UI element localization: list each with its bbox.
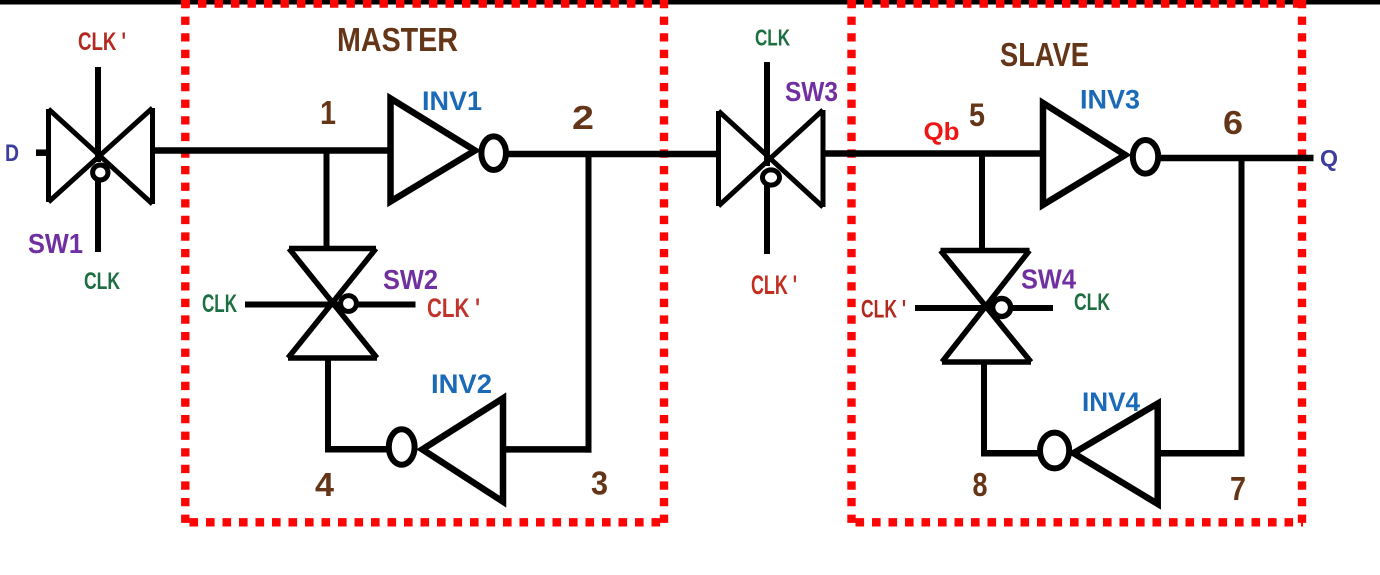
- wire node 5 to SW4: [979, 154, 985, 251]
- transmission gate SW4: [941, 251, 1032, 363]
- svg-text:CLK ': CLK ': [751, 270, 797, 300]
- svg-text:MASTER: MASTER: [337, 21, 458, 58]
- svg-text:INV1: INV1: [422, 86, 482, 116]
- svg-text:CLK ': CLK ': [861, 296, 906, 324]
- wire SW1 to INV1 (node 1): [153, 147, 391, 154]
- svg-text:CLK: CLK: [202, 290, 237, 318]
- wire node 1 to SW2: [324, 151, 330, 249]
- wire CLK' to SW1 (top): [95, 67, 101, 162]
- svg-text:CLK: CLK: [755, 25, 790, 51]
- svg-text:CLK: CLK: [84, 268, 120, 295]
- wire CLK to SW3 (top): [764, 62, 770, 166]
- inverter INV4: [1074, 404, 1158, 504]
- MASTER dashed box: [182, 0, 669, 523]
- svg-text:INV4: INV4: [1082, 387, 1140, 417]
- SW4 control line (CLK' / CLK): [915, 305, 1053, 311]
- svg-text:6: 6: [1223, 104, 1243, 141]
- INV4 output bubble: [1040, 433, 1069, 469]
- wire node 2 to node 3: [586, 151, 592, 453]
- svg-text:SW4: SW4: [1021, 263, 1076, 294]
- SW2 control line (CLK / CLK'): [245, 302, 416, 308]
- svg-text:SLAVE: SLAVE: [1000, 36, 1089, 73]
- wire node 8 to INV4: [981, 450, 1040, 457]
- svg-text:1: 1: [320, 94, 336, 131]
- INV3 output bubble: [1133, 140, 1158, 174]
- svg-text:3: 3: [591, 465, 608, 502]
- svg-text:SW2: SW2: [383, 264, 438, 295]
- SW2 enable bubble: [341, 296, 357, 312]
- svg-text:CLK ': CLK ': [78, 28, 126, 56]
- svg-text:Qb: Qb: [924, 118, 960, 146]
- wire node 6 to node 7: [1239, 155, 1245, 456]
- wire SW2 to node 4: [325, 358, 331, 453]
- wire SW4 to node 8: [981, 362, 987, 457]
- inverter INV3: [1043, 103, 1125, 205]
- SLAVE dashed box: [848, 0, 1307, 523]
- wire SW3 to INV3 (node 5 / Qb): [823, 150, 1043, 157]
- SW3 enable bubble: [763, 170, 780, 185]
- SW4 enable bubble: [993, 299, 1011, 317]
- svg-text:CLK ': CLK ': [427, 293, 480, 323]
- svg-text:CLK: CLK: [1074, 289, 1110, 316]
- wire INV1 to SW3 (node 2): [506, 151, 719, 158]
- svg-text:INV3: INV3: [1080, 85, 1140, 115]
- svg-text:D: D: [5, 140, 19, 167]
- svg-text:SW1: SW1: [28, 228, 83, 259]
- wire D to SW1: [36, 149, 49, 156]
- wire INV2 to node 3: [503, 446, 592, 453]
- inverter INV1: [391, 99, 476, 202]
- transmission gate SW1: [49, 108, 153, 204]
- wire node 4 to INV2: [325, 446, 389, 453]
- svg-text:SW3: SW3: [785, 76, 838, 107]
- INV2 output bubble: [389, 429, 415, 464]
- svg-text:INV2: INV2: [431, 369, 492, 399]
- transmission gate SW2: [288, 249, 377, 359]
- inverter INV2: [422, 398, 503, 501]
- transmission gate SW3: [719, 110, 824, 207]
- svg-text:5: 5: [969, 97, 985, 133]
- svg-text:4: 4: [315, 466, 335, 503]
- svg-text:7: 7: [1230, 470, 1246, 507]
- top border bar: [0, 0, 1380, 5]
- SW1 enable bubble: [93, 165, 108, 180]
- wire CLK' to SW3 (bottom): [764, 180, 770, 254]
- svg-text:2: 2: [572, 99, 594, 136]
- wire INV4 to node 7: [1158, 450, 1245, 457]
- wire INV3 to Q (node 6): [1158, 155, 1314, 162]
- svg-text:Q: Q: [1320, 145, 1338, 171]
- wire CLK to SW1 (bottom): [95, 175, 101, 252]
- svg-text:8: 8: [973, 466, 988, 503]
- INV1 output bubble: [481, 136, 506, 170]
